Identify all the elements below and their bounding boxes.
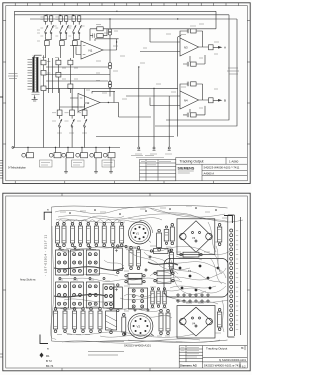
- note: power labels: [135, 154, 172, 158]
- wire: inputs to N1: [70, 46, 81, 55]
- wire: fb components stubs: [90, 29, 109, 41]
- terminal A arrow: [218, 46, 222, 49]
- op-amp N2: [78, 94, 100, 112]
- terminal B arrow: [218, 99, 222, 102]
- svg-text:1 A060: 1 A060: [229, 159, 239, 163]
- svg-text:V3: V3: [192, 236, 196, 240]
- capacitor CM2: [157, 288, 160, 308]
- resistor R12: [41, 60, 46, 65]
- connector X1 body: [32, 57, 40, 92]
- capacitor CN1: [164, 226, 169, 245]
- corner bracket top-left of board: [44, 212, 52, 220]
- transistor V3 (TO-3 package): [177, 219, 215, 255]
- RC group G2: [49, 148, 61, 158]
- resistor RA3: [71, 223, 75, 247]
- resistor RM4: [137, 247, 141, 270]
- wire: right rail verticals: [155, 11, 237, 126]
- wire: col3 links: [74, 15, 80, 58]
- capacitor CM1: [151, 288, 154, 308]
- relay block K5: [56, 282, 69, 308]
- diode V5 (hatched): [106, 308, 117, 334]
- edge connector pad strip: [228, 215, 241, 337]
- wire: cluster columns down: [60, 88, 85, 147]
- pad grid block: [128, 288, 147, 309]
- svg-text:A: A: [224, 46, 226, 50]
- resistor RH1: [125, 273, 145, 278]
- wire: third bus: [30, 18, 237, 20]
- resistor RA9: [120, 223, 124, 247]
- resistor R2a: [59, 16, 62, 22]
- wire: x110 vertical: [109, 19, 111, 62]
- switch S1b: [50, 21, 54, 36]
- switch S2b: [65, 21, 69, 36]
- pads row above V4: [177, 294, 209, 302]
- svg-text:N1: N1: [89, 49, 93, 53]
- pcb frame inner: [6, 196, 248, 368]
- ground (connector): [32, 97, 38, 101]
- svg-text:SIEMENS: SIEMENS: [178, 166, 195, 170]
- IC V1 (metal can): [129, 220, 153, 244]
- svg-text:- LS7-02014 - S137 11: - LS7-02014 - S137 11: [44, 234, 48, 276]
- wire: +supply bus top: [15, 10, 217, 12]
- wire: feedback row to N3: [110, 29, 216, 42]
- wire: N3 out to terminal A: [213, 46, 218, 48]
- corner bracket top-right of board: [224, 216, 232, 224]
- note: legend description: [88, 342, 124, 356]
- note: Teilschaltbild reference text: [8, 74, 18, 79]
- resistor RD6: [98, 308, 102, 333]
- resistor R22 (N4 out): [209, 98, 214, 103]
- note: cluster labels: [52, 113, 87, 133]
- resistor RL1 (left of V2): [122, 314, 126, 336]
- resistor RV2: [166, 310, 170, 335]
- resistor RD1: [54, 308, 58, 333]
- RC group G4: [76, 148, 88, 158]
- capacitor C5 (over N1): [93, 33, 103, 37]
- note: extra traces dense: [56, 216, 226, 318]
- resistor RT1 (left of V3): [170, 224, 174, 245]
- frame tick marks: [3, 3, 251, 184]
- svg-text:S42023-W4000-A101-*-7411: S42023-W4000-A101-*-7411: [204, 166, 240, 170]
- fold marks left edge (top panel): [0, 161, 3, 179]
- svg-text:R1: R1: [46, 354, 50, 358]
- pcb frame outer: [3, 193, 250, 371]
- board outline: [52, 206, 228, 343]
- drawing frame inner: [6, 6, 248, 181]
- schematic content: [8, 11, 239, 173]
- resistor R13: [41, 70, 46, 75]
- trimmer P6: [83, 116, 87, 130]
- svg-text:6.2: 6.2: [242, 365, 246, 368]
- resistor RR1: [217, 224, 221, 246]
- resistor R15: [56, 60, 61, 65]
- legend diamond symbol: [40, 353, 51, 358]
- svg-text:Tracking Output: Tracking Output: [206, 346, 227, 350]
- svg-text:N2: N2: [86, 101, 90, 105]
- wire: -supply bus: [15, 14, 230, 16]
- trimmer P4: [58, 116, 62, 130]
- relay block K8: [103, 284, 114, 308]
- switch S2a: [60, 21, 64, 36]
- resistor R3c: [73, 41, 78, 46]
- resistor RA1: [56, 223, 60, 247]
- legend plus marks: [40, 359, 54, 368]
- wire: cluster feeds: [60, 104, 85, 107]
- resistor RD4: [81, 308, 85, 333]
- resistor RA4: [78, 223, 82, 247]
- power terminal t2: [153, 147, 156, 150]
- resistor RD5: [89, 308, 93, 333]
- frame ticks (bottom panel): [0, 193, 250, 371]
- power terminal t3: [168, 147, 171, 150]
- title block (bottom panel): [179, 346, 247, 369]
- resistor R29: [82, 110, 87, 116]
- resistor R21 (N3 out): [209, 45, 214, 50]
- relay K1 (shield region): [164, 259, 228, 298]
- wire: into N3: [140, 42, 180, 52]
- wire: horizontal runs: [46, 67, 178, 88]
- wire: N4 feedback: [180, 84, 209, 100]
- note: labels col3: [68, 17, 84, 36]
- resistor R10 (over N1): [97, 27, 103, 31]
- resistor R17: [68, 60, 73, 65]
- power terminal t1: [137, 147, 140, 150]
- terminal left lower bus: [12, 147, 14, 149]
- capacitor C9 (over N3): [187, 29, 196, 34]
- fold mark left border: [0, 96, 3, 98]
- wire: long horizontals lower mid: [96, 136, 174, 138]
- resistor RD3: [73, 308, 77, 333]
- wire: mid columns: [58, 58, 70, 93]
- pcb copper traces (stylised): [51, 207, 243, 343]
- resistor R2c: [60, 41, 65, 46]
- wire: under N3: [183, 55, 205, 64]
- svg-text:A4060 A: A4060 A: [204, 172, 215, 176]
- connector X1 pins: [28, 59, 33, 89]
- RC group G6: [103, 148, 115, 158]
- resistor RA8: [111, 223, 115, 247]
- wire: connector top stub: [35, 55, 42, 57]
- note: connector column labels: [42, 58, 78, 89]
- relay block K2: [56, 250, 69, 275]
- svg-text:B 72: B 72: [46, 359, 52, 363]
- resistor R2b: [65, 16, 68, 22]
- note: pcb label smudges: [57, 206, 227, 342]
- wire: N2 output run: [108, 103, 151, 118]
- switch S3a: [73, 21, 77, 36]
- svg-text:w: w: [47, 348, 49, 351]
- ground g2: [94, 172, 98, 173]
- resistor RV1: [159, 310, 163, 335]
- svg-text:S42023-W4000-A101: S42023-W4000-A101: [124, 344, 151, 348]
- wire: N2 feedback top: [92, 91, 119, 102]
- svg-text:B4 74: B4 74: [46, 364, 54, 368]
- op-amp N4: [180, 91, 199, 109]
- junction dots: [46, 11, 178, 20]
- resistor RN1 (right of can V1): [157, 229, 162, 251]
- wire: column right of connector: [43, 55, 45, 147]
- wire: group grounds: [66, 158, 111, 172]
- svg-text:V1: V1: [136, 231, 140, 235]
- relay block K7: [86, 282, 99, 308]
- revision table: [140, 160, 176, 181]
- RC group G1: [22, 148, 34, 158]
- RC group G5: [90, 148, 102, 158]
- capacitor CM3: [163, 288, 166, 308]
- capacitor C11 (over N4): [187, 82, 196, 87]
- resistor R1c: [45, 41, 50, 46]
- resistor RA5: [86, 223, 90, 247]
- capacitor C20 (electrolytic): [113, 245, 122, 274]
- transistor V4 (TO-3 package): [177, 306, 215, 339]
- svg-text:b) S42023-W4000-A101: b) S42023-W4000-A101: [219, 359, 247, 362]
- resistor R1a: [44, 16, 47, 22]
- switch S1a: [45, 21, 49, 36]
- svg-text:Bl.: Bl.: [241, 348, 244, 350]
- wire: N3 feedback: [178, 31, 209, 47]
- junction dots bus: [27, 147, 110, 148]
- resistor R3a: [72, 16, 75, 22]
- wire: N4 out to terminal B: [209, 99, 219, 101]
- title block main frame: [176, 157, 248, 180]
- IC V2 (metal can): [128, 314, 154, 339]
- SIEMENS logo: [178, 166, 195, 173]
- drawing frame outer: [3, 3, 250, 184]
- note: group label boxes: [40, 160, 115, 167]
- op-amp N1: [81, 41, 103, 59]
- note: bold traces: [54, 262, 178, 297]
- note: misc labels top panel: [86, 24, 219, 108]
- resistor R1b: [50, 16, 53, 22]
- resistor RA6: [94, 223, 98, 247]
- note: right text block: [227, 68, 239, 74]
- svg-text:B: B: [224, 99, 226, 103]
- capacitor C10 (under N3): [187, 62, 196, 67]
- resistor RH0: [150, 249, 171, 254]
- svg-text:S42023-W4000-A101-a-7411: S42023-W4000-A101-a-7411: [204, 363, 242, 367]
- capacitor C12 (under N4): [187, 113, 196, 118]
- svg-text:T1: T1: [188, 269, 192, 273]
- note: labels col1: [40, 17, 56, 36]
- resistor RM3: [129, 247, 133, 270]
- resistor RU1 (below V3): [180, 252, 202, 257]
- resistor R27: [57, 110, 62, 116]
- wire: into N4: [126, 96, 180, 106]
- polarized capacitor C7: [108, 63, 111, 81]
- ground g3: [109, 172, 113, 173]
- note: labels col2: [55, 17, 71, 36]
- resistor RA2: [62, 223, 66, 247]
- note: C9 label: [190, 25, 196, 27]
- solder pads scatter: [59, 246, 151, 336]
- resistor RA7: [102, 223, 106, 247]
- resistor RH4: [154, 278, 174, 283]
- resistor R14: [41, 86, 46, 91]
- wire: col2 links: [61, 15, 67, 58]
- via dots top edge: [69, 207, 217, 215]
- svg-text:9-Teilschaltplan: 9-Teilschaltplan: [8, 165, 26, 169]
- resistor R18: [68, 84, 73, 89]
- wire: vertical pair: [49, 58, 53, 93]
- relay block K3: [71, 250, 84, 275]
- resistor R3b: [78, 16, 81, 22]
- resistor RH3: [154, 271, 174, 276]
- svg-text:Ansp.Sicht ea: Ansp.Sicht ea: [20, 279, 36, 282]
- resistor RR2: [217, 309, 221, 331]
- svg-text:V2: V2: [137, 325, 141, 329]
- wire: N1 feedback top: [95, 39, 119, 50]
- wire: lower bus: [13, 147, 120, 149]
- junction dots mid: [109, 66, 154, 89]
- corner bracket bottom-left of board: [40, 335, 48, 344]
- resistor R16: [56, 72, 61, 77]
- capacitor C21 (electrolytic): [113, 284, 122, 312]
- connector pin tags bottom: [32, 93, 40, 95]
- RC group G3: [62, 148, 74, 158]
- wire: N2 inputs: [70, 98, 78, 107]
- resistor R28: [70, 110, 75, 116]
- relay block K4: [86, 250, 99, 275]
- resistor RD2: [63, 308, 67, 333]
- relay block K6: [71, 282, 84, 308]
- svg-text:N4: N4: [184, 99, 188, 103]
- resistor RH2: [125, 279, 145, 284]
- wire: under N4: [183, 106, 205, 115]
- resistor RM5: [170, 249, 174, 273]
- ground g1: [64, 172, 68, 173]
- wire: verticals center: [139, 37, 178, 147]
- polarized capacitor C6: [108, 26, 111, 39]
- wire: connector to ground: [34, 95, 36, 97]
- wire: col1 links: [46, 15, 52, 58]
- trimmer P5: [71, 116, 75, 130]
- note: left margin labels: [37, 30, 40, 41]
- svg-text:Tracking Output: Tracking Output: [180, 159, 204, 163]
- note: trace arcs above row A: [58, 220, 122, 224]
- svg-text:N3: N3: [184, 46, 188, 50]
- polarized capacitor C8: [108, 81, 111, 96]
- switch S3b: [78, 21, 82, 36]
- op-amp N3: [180, 38, 199, 56]
- svg-text:V4: V4: [192, 322, 196, 326]
- svg-text:Siemens AG: Siemens AG: [180, 364, 198, 368]
- svg-text:w: w: [47, 209, 49, 212]
- wire: left rail vertical: [14, 11, 16, 147]
- note: smudge above revision table: [131, 154, 154, 156]
